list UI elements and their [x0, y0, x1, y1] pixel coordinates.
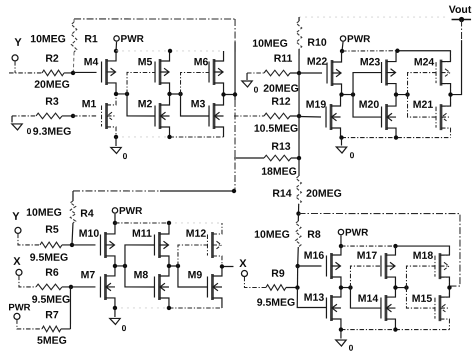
mid node row B dots and links [342, 94, 354, 96]
PWR terminal block B [340, 36, 345, 41]
wire M7 gate [71, 286, 96, 288]
wire M6 gate feed [181, 72, 210, 94]
wire M16 gate [298, 265, 322, 267]
svg-text:M4: M4 [84, 56, 99, 68]
wire Vout vertical [461, 19, 463, 40]
svg-text:M8: M8 [134, 269, 149, 281]
resistor R9 9.5MEG horizontal [266, 285, 286, 291]
svg-text:R12: R12 [271, 96, 290, 108]
node M23 drain [395, 49, 399, 53]
svg-text:0: 0 [122, 323, 127, 333]
resistor R4 10MEG vertical [72, 191, 74, 201]
svg-text:PWR: PWR [347, 34, 371, 45]
mid node row D dots and links [341, 287, 351, 289]
wire M22 gate [299, 72, 322, 74]
wire PWR row A [116, 50, 170, 52]
svg-text:M22: M22 [307, 56, 328, 68]
ground under M7 [114, 308, 116, 317]
svg-text:R10: R10 [307, 37, 326, 49]
wire Y2 to R5 [18, 234, 40, 245]
wire PWR row B [342, 50, 397, 52]
svg-text:9.5MEG: 9.5MEG [30, 252, 69, 264]
wire X2 to R9 [244, 277, 266, 288]
wire PWR row D [341, 245, 396, 247]
svg-text:M14: M14 [358, 293, 379, 305]
wire M17 gate feed [350, 266, 381, 288]
node M12 source stub [222, 265, 234, 267]
node M7 gate junction [69, 285, 73, 289]
node R13 junction [297, 156, 301, 160]
wire top rail block C [73, 190, 160, 192]
wire bottom row D [341, 329, 395, 331]
mid node row A dots and links [116, 93, 127, 95]
wire M13 gate feed [297, 288, 326, 308]
node PWR row C [113, 221, 117, 225]
wire bias bus x=235 (top rail A down to rail C) [234, 19, 236, 42]
svg-text:M12: M12 [186, 228, 207, 240]
resistor R8 10MEG vertical [297, 214, 299, 222]
svg-text:R9: R9 [271, 268, 285, 280]
svg-text:R7: R7 [45, 309, 59, 321]
svg-text:M21: M21 [413, 99, 434, 111]
resistor R13 18MEG horizontal [264, 155, 291, 161]
svg-text:M5: M5 [138, 56, 153, 68]
wire M4 gate [73, 71, 97, 73]
mid node row C dots and links [115, 265, 125, 267]
svg-text:M20: M20 [359, 99, 380, 111]
node M11 drain on PWR row [167, 221, 171, 225]
resistor R14 20MEG vertical [298, 158, 300, 176]
resistor R12 10.5MEG horizontal [264, 113, 290, 119]
node M16 gate junction [295, 264, 299, 268]
svg-text:R5: R5 [45, 224, 59, 236]
svg-text:Y: Y [12, 211, 20, 223]
wire R11 left [247, 72, 264, 74]
svg-text:M3: M3 [191, 98, 206, 110]
svg-text:M9: M9 [188, 269, 203, 281]
wire PWR stem C [114, 214, 116, 223]
resistor R5 9.5MEG horizontal [40, 242, 62, 248]
wire M14 gate feed [350, 288, 381, 309]
svg-text:R3: R3 [45, 96, 59, 108]
wire M1 gate [73, 115, 97, 117]
wire Y to R2 [14, 61, 16, 73]
ground at R3 left [11, 116, 13, 123]
svg-text:Y: Y [14, 37, 22, 49]
wire M3 gate feed [181, 94, 210, 116]
svg-text:10MEG: 10MEG [30, 33, 66, 45]
wire PWR stem A [115, 42, 118, 51]
svg-text:0: 0 [27, 126, 32, 136]
svg-text:R4: R4 [80, 208, 94, 220]
svg-text:M23: M23 [360, 56, 381, 68]
PWR terminal block A [114, 36, 119, 41]
wire M15 gate feed [406, 288, 435, 309]
wire M12 gate feed [178, 245, 208, 266]
svg-text:PWR: PWR [345, 228, 369, 239]
svg-text:R11: R11 [274, 53, 293, 65]
wire M24 gate feed [408, 73, 437, 95]
node R14 bottom [296, 211, 300, 215]
svg-text:0: 0 [350, 150, 355, 160]
svg-text:M6: M6 [194, 56, 209, 68]
svg-text:PWR: PWR [8, 302, 30, 313]
wire R7 to R6 junction [69, 287, 71, 329]
ground at R11 left [246, 73, 248, 80]
svg-text:Vout: Vout [449, 4, 472, 16]
svg-text:M10: M10 [79, 228, 100, 240]
svg-text:10MEG: 10MEG [252, 38, 288, 50]
wire M8 gate feed [125, 266, 155, 287]
resistor R2 20MEG horizontal [42, 70, 64, 76]
wire PWR to R7 [17, 319, 42, 329]
wire M18 gate feed [406, 266, 435, 288]
svg-text:0: 0 [123, 151, 128, 161]
node R11 junction [297, 71, 301, 75]
node rail C bus junction [232, 189, 236, 193]
wire PWR stem B [342, 42, 343, 51]
wire bottom row B [342, 137, 398, 139]
wire Vout rail [299, 16, 449, 18]
resistor R10 10MEG vertical [298, 17, 300, 21]
node PWR row B [340, 49, 344, 53]
svg-text:10.5MEG: 10.5MEG [254, 123, 298, 135]
svg-text:9.5MEG: 9.5MEG [32, 294, 71, 306]
svg-text:R8: R8 [307, 229, 321, 241]
svg-text:PWR: PWR [119, 206, 143, 217]
svg-text:M15: M15 [412, 293, 433, 305]
wire M10 gate [72, 244, 95, 246]
resistor R7 5MEG horizontal [42, 326, 61, 332]
node M17 drain [393, 244, 397, 248]
svg-text:M19: M19 [306, 99, 327, 111]
node Vout [459, 17, 464, 22]
svg-text:R2: R2 [45, 53, 59, 65]
svg-text:R1: R1 [84, 33, 98, 45]
ground under M19 [341, 138, 343, 146]
wire second-stage gate bus y=213.5 [298, 214, 460, 288]
svg-text:M2: M2 [138, 98, 153, 110]
wire PWR row C [115, 222, 169, 224]
wire R12 left from bus [234, 115, 264, 117]
node M10 gate junction [70, 243, 74, 247]
resistor R6 9.5MEG horizontal [36, 284, 62, 290]
wire M20 gate feed [353, 95, 382, 118]
svg-text:X: X [239, 258, 247, 270]
svg-text:M16: M16 [304, 250, 325, 262]
PWR terminal block C [112, 208, 117, 213]
wire X to R6 [19, 276, 36, 287]
wire M5 gate feed [127, 72, 155, 94]
svg-text:M18: M18 [413, 250, 434, 262]
wire PWR stem D [340, 235, 342, 246]
svg-text:20MEG: 20MEG [306, 188, 342, 200]
svg-text:9.5MEG: 9.5MEG [257, 297, 296, 309]
wire bottom row A [116, 136, 170, 138]
node M5 drain on PWR row [168, 49, 172, 53]
resistor R11 20MEG horizontal [264, 70, 290, 76]
resistor R3 9.3MEG horizontal [36, 113, 62, 119]
svg-text:R6: R6 [45, 267, 59, 279]
resistor R1 10MEG vertical [73, 19, 75, 22]
svg-text:0: 0 [349, 343, 354, 351]
PWR terminal block D [338, 229, 343, 234]
svg-text:X: X [13, 256, 21, 268]
svg-text:10MEG: 10MEG [254, 229, 290, 241]
wire bus R8 to R9 [296, 266, 298, 288]
ground under M1 [115, 137, 117, 146]
svg-text:18MEG: 18MEG [261, 166, 297, 178]
node PWR row D [339, 244, 343, 248]
wire bottom row C [115, 307, 169, 309]
wire M21 gate feed [408, 95, 437, 118]
svg-text:M13: M13 [304, 292, 325, 304]
node M1 gate junction [71, 114, 75, 118]
wire M19 gate [299, 116, 321, 119]
svg-text:20MEG: 20MEG [34, 79, 70, 91]
svg-text:R14: R14 [272, 188, 291, 200]
wire resistor bus R11-R12-R13 [298, 73, 300, 116]
svg-text:M17: M17 [357, 250, 378, 262]
ground under M13 [340, 330, 342, 339]
svg-text:M24: M24 [414, 56, 435, 68]
svg-text:PWR: PWR [121, 34, 145, 45]
wire M11 gate feed [125, 245, 155, 266]
wire R3 left [12, 115, 36, 117]
svg-text:M1: M1 [82, 98, 97, 110]
node PWR row A [114, 49, 118, 53]
wire M9 gate feed [178, 266, 208, 287]
node R9 junction [295, 285, 299, 289]
svg-text:5MEG: 5MEG [37, 335, 67, 347]
svg-text:M7: M7 [81, 269, 96, 281]
svg-text:R13: R13 [271, 141, 290, 153]
node R12 junction [297, 114, 301, 118]
wire top rail block A [74, 18, 235, 20]
svg-text:9.3MEG: 9.3MEG [33, 126, 72, 138]
wire R13 left from bus [234, 157, 264, 159]
node M4 gate junction [71, 71, 75, 75]
svg-text:10MEG: 10MEG [26, 207, 62, 219]
svg-text:0: 0 [254, 85, 259, 95]
wire M23 gate feed [353, 73, 382, 95]
svg-text:M11: M11 [132, 228, 152, 240]
wire M2 gate feed [127, 94, 155, 116]
svg-text:20MEG: 20MEG [263, 83, 299, 95]
